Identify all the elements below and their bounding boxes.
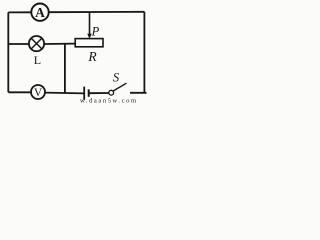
wire: bottom rail from battery to switch — [89, 92, 109, 94]
wire: left vertical — [7, 12, 9, 92]
wire: top rail left segment — [8, 11, 31, 13]
svg-text:A: A — [35, 5, 45, 20]
rheostat R body — [75, 39, 103, 47]
lamp L (circle with cross) — [29, 36, 44, 51]
battery short plate — [88, 89, 90, 96]
svg-text:P: P — [91, 25, 100, 39]
wire: top rail right segment — [49, 11, 145, 13]
switch S pivot circle — [109, 90, 114, 95]
wire: middle rail from left wall to lamp — [8, 43, 29, 45]
wire: bottom rail right segment to right wall — [130, 92, 147, 94]
svg-text:R: R — [87, 49, 97, 64]
voltmeter V — [31, 85, 45, 99]
wiper arrowhead P — [87, 34, 92, 39]
wire: bottom rail from voltmeter to battery — [45, 92, 84, 95]
wire: middle rail from lamp to rheostat — [44, 43, 75, 45]
svg-text:V: V — [34, 87, 43, 99]
wire: bottom rail from left wall to voltmeter — [8, 91, 31, 93]
wire: branch drop from middle rail to bottom rail — [64, 44, 66, 93]
wiper wire from top rail down — [89, 12, 91, 35]
ammeter A — [31, 4, 48, 21]
battery long plate — [83, 87, 85, 100]
svg-text:L: L — [34, 53, 41, 67]
svg-text:w.daan5w.com: w.daan5w.com — [80, 97, 136, 104]
switch lever — [113, 83, 126, 91]
wire: right vertical — [143, 12, 145, 93]
svg-text:S: S — [113, 71, 120, 85]
